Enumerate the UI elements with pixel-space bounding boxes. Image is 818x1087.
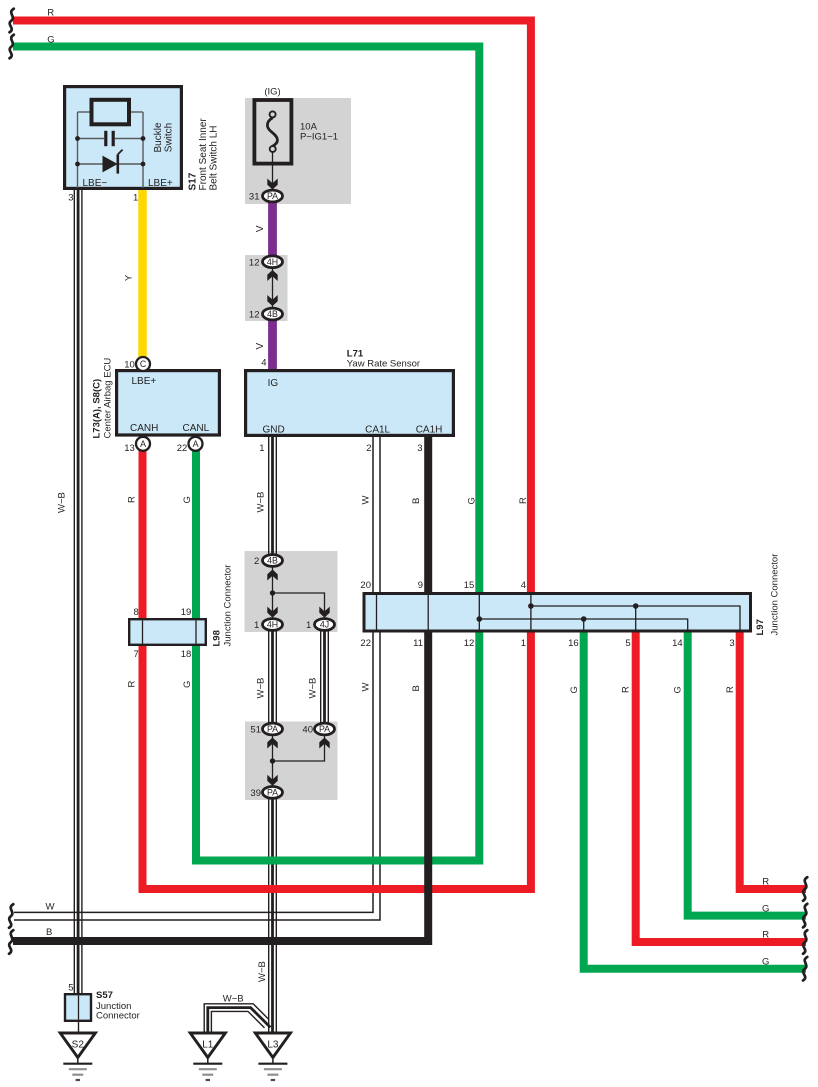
- svg-text:Belt Switch LH: Belt Switch LH: [209, 125, 220, 190]
- svg-text:W: W: [360, 496, 371, 505]
- svg-text:L1: L1: [202, 1040, 214, 1051]
- svg-text:12: 12: [249, 310, 260, 321]
- svg-text:S17: S17: [188, 172, 199, 190]
- svg-text:W−B: W−B: [256, 678, 267, 699]
- svg-text:W−B: W−B: [256, 492, 267, 513]
- svg-text:2: 2: [366, 443, 371, 454]
- svg-text:B: B: [411, 498, 422, 504]
- svg-text:1: 1: [259, 443, 264, 454]
- svg-text:19: 19: [181, 607, 192, 618]
- svg-text:L98: L98: [212, 630, 223, 646]
- svg-text:CA1L: CA1L: [365, 424, 390, 435]
- svg-text:Junction Connector: Junction Connector: [223, 565, 234, 647]
- svg-text:5: 5: [68, 983, 73, 994]
- svg-text:4J: 4J: [320, 620, 329, 630]
- svg-text:W: W: [46, 901, 55, 912]
- svg-text:1: 1: [306, 620, 311, 631]
- svg-text:8: 8: [134, 607, 139, 618]
- svg-text:14: 14: [672, 638, 683, 649]
- svg-text:LBE+: LBE+: [148, 178, 173, 189]
- svg-text:4B: 4B: [267, 309, 278, 319]
- svg-text:PA: PA: [267, 788, 278, 798]
- svg-text:LBE−: LBE−: [83, 178, 108, 189]
- svg-text:4B: 4B: [267, 556, 278, 566]
- svg-text:Y: Y: [124, 274, 135, 281]
- svg-text:A: A: [193, 439, 199, 449]
- svg-text:1: 1: [133, 193, 138, 204]
- svg-text:3: 3: [68, 193, 73, 204]
- svg-text:GND: GND: [263, 424, 285, 435]
- svg-text:CA1H: CA1H: [416, 424, 443, 435]
- svg-text:Buckle: Buckle: [153, 122, 164, 152]
- svg-text:11: 11: [413, 638, 423, 649]
- svg-text:Center Airbag ECU: Center Airbag ECU: [103, 358, 114, 439]
- svg-text:39: 39: [250, 788, 261, 799]
- svg-text:(IG): (IG): [264, 87, 280, 98]
- svg-text:R: R: [621, 686, 632, 693]
- svg-text:Connector: Connector: [96, 1011, 140, 1022]
- svg-text:G: G: [47, 34, 54, 45]
- svg-text:G: G: [182, 681, 193, 688]
- svg-text:S57: S57: [96, 990, 113, 1001]
- svg-text:3: 3: [417, 443, 422, 454]
- svg-text:PA: PA: [319, 724, 330, 734]
- svg-text:13: 13: [124, 443, 135, 454]
- svg-text:12: 12: [464, 638, 475, 649]
- svg-text:G: G: [762, 903, 769, 914]
- svg-text:20: 20: [360, 580, 371, 591]
- svg-text:V: V: [255, 343, 266, 350]
- svg-text:B: B: [411, 685, 422, 691]
- svg-text:G: G: [182, 496, 193, 503]
- svg-text:Yaw Rate Sensor: Yaw Rate Sensor: [347, 359, 420, 370]
- svg-text:1: 1: [521, 638, 526, 649]
- svg-text:10: 10: [124, 360, 135, 371]
- svg-text:4H: 4H: [267, 620, 278, 630]
- svg-text:PA: PA: [267, 724, 278, 734]
- svg-text:CANL: CANL: [183, 423, 210, 434]
- svg-text:R: R: [762, 877, 769, 888]
- svg-text:51: 51: [250, 724, 261, 735]
- svg-text:16: 16: [568, 638, 579, 649]
- svg-text:L3: L3: [267, 1040, 279, 1051]
- svg-text:G: G: [466, 497, 477, 504]
- svg-text:Switch: Switch: [164, 123, 175, 152]
- svg-text:W−B: W−B: [223, 994, 244, 1005]
- svg-text:Front Seat Inner: Front Seat Inner: [198, 118, 209, 191]
- svg-text:W−B: W−B: [57, 492, 68, 513]
- svg-text:15: 15: [464, 580, 475, 591]
- svg-text:9: 9: [418, 580, 423, 591]
- svg-text:W: W: [360, 683, 371, 692]
- svg-text:7: 7: [134, 649, 139, 660]
- svg-text:S2: S2: [72, 1040, 85, 1051]
- svg-text:G: G: [673, 686, 684, 693]
- svg-text:C: C: [140, 359, 147, 369]
- svg-text:31: 31: [249, 192, 260, 203]
- svg-text:R: R: [127, 681, 138, 688]
- svg-text:22: 22: [360, 638, 371, 649]
- svg-text:A: A: [140, 439, 146, 449]
- svg-text:1: 1: [254, 620, 259, 631]
- svg-text:R: R: [762, 930, 769, 941]
- svg-text:5: 5: [625, 638, 630, 649]
- svg-text:IG: IG: [268, 378, 279, 389]
- svg-text:2: 2: [254, 556, 259, 567]
- svg-text:12: 12: [249, 257, 260, 268]
- svg-text:R: R: [518, 497, 529, 504]
- svg-text:Junction Connector: Junction Connector: [770, 554, 781, 636]
- svg-text:G: G: [569, 686, 580, 693]
- svg-text:4H: 4H: [267, 257, 278, 267]
- svg-text:L97: L97: [755, 619, 766, 635]
- svg-text:4: 4: [521, 580, 526, 591]
- svg-text:18: 18: [181, 649, 192, 660]
- svg-text:L73(A), S8(C): L73(A), S8(C): [92, 379, 103, 439]
- svg-text:W−B: W−B: [308, 678, 319, 699]
- svg-text:P−IG1−1: P−IG1−1: [300, 131, 338, 142]
- svg-text:LBE+: LBE+: [132, 376, 157, 387]
- svg-text:R: R: [725, 686, 736, 693]
- svg-text:3: 3: [729, 638, 734, 649]
- svg-text:B: B: [46, 927, 52, 938]
- svg-text:R: R: [127, 496, 138, 503]
- svg-text:4: 4: [261, 357, 266, 368]
- svg-text:R: R: [47, 7, 54, 18]
- svg-text:W−B: W−B: [257, 961, 268, 982]
- svg-text:CANH: CANH: [130, 423, 158, 434]
- svg-text:V: V: [255, 225, 266, 232]
- svg-text:40: 40: [302, 724, 313, 735]
- svg-text:PA: PA: [267, 191, 278, 201]
- svg-text:G: G: [762, 956, 769, 967]
- svg-text:22: 22: [177, 443, 188, 454]
